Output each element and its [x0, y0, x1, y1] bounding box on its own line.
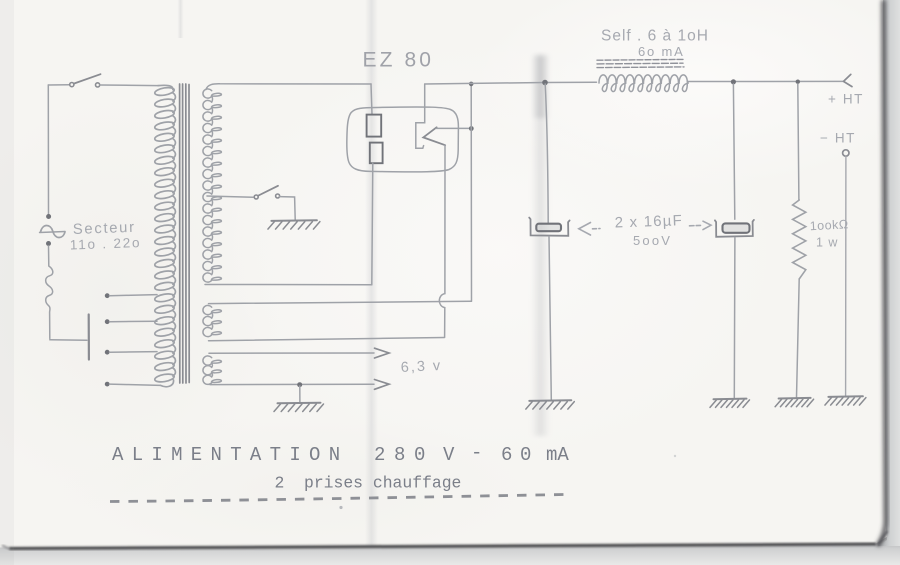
- wire: R1 to ground: [797, 279, 800, 397]
- plate 2 (anode): [370, 143, 383, 164]
- primary tap node 3: [105, 350, 110, 355]
- svg-text:60: 60: [501, 444, 539, 466]
- transformer T1 heater winding 2: [203, 356, 221, 385]
- voltage selector bar: [88, 315, 90, 360]
- cathode arrow: [423, 127, 445, 145]
- node: heater 2 ground junction: [297, 382, 302, 387]
- svg-text:Self . 6 à 1oH: Self . 6 à 1oH: [601, 28, 709, 45]
- wire: tap 3: [110, 351, 158, 354]
- wire: C1 to ground: [549, 237, 551, 400]
- scan edge: bottom: [0, 535, 900, 565]
- svg-text:mA: mA: [546, 444, 569, 466]
- node: cathode junction: [469, 126, 474, 131]
- wire: HV secondary top to plate: [206, 84, 371, 90]
- svg-text:5ooV: 5ooV: [633, 233, 672, 248]
- transformer T1 heater winding 1: [203, 305, 221, 336]
- wire: heater 1 bottom: [209, 338, 445, 341]
- wire: +HT rail from cathode: [425, 82, 597, 84]
- wire: R1 branch down: [798, 84, 799, 200]
- wire: -HT to ground: [845, 157, 847, 396]
- wire: C2 branch down: [733, 84, 734, 219]
- wire: rail choke to +HT fork: [688, 80, 844, 82]
- wire: HV secondary bottom to plate 2 lead: [205, 284, 372, 286]
- svg-text:ALIMENTATION: ALIMENTATION: [112, 444, 348, 466]
- svg-text:6o mA: 6o mA: [638, 44, 685, 59]
- svg-text:+ HT: + HT: [828, 92, 864, 107]
- switch S1 (mains switch): [48, 84, 69, 86]
- wire: mains left vertical: [47, 85, 49, 214]
- wire: below AC source with squiggle: [46, 246, 53, 339]
- ground (C2): [714, 398, 747, 401]
- choke L1 core lines: [597, 59, 684, 67]
- ground (R1): [779, 397, 811, 400]
- switch S2 (HT center-tap to ground): [254, 195, 258, 199]
- wire: heater 2 bottom (6,3V output): [210, 383, 374, 385]
- scan edge: right: [878, 0, 900, 546]
- node: C2 junction: [731, 79, 736, 84]
- wire: tap 4: [110, 384, 161, 385]
- dashed separator line: [110, 495, 565, 502]
- wire: cathode output: [436, 127, 471, 129]
- primary tap node 2: [105, 319, 110, 324]
- arrow annotation right (to C2): [690, 224, 701, 226]
- wire: junction to ground: [299, 386, 301, 402]
- wire: heater 1 top to cathode rail: [209, 301, 472, 303]
- tube EZ80 envelope: [347, 107, 459, 172]
- primary tap node 4: [105, 382, 110, 387]
- +HT output fork: [844, 74, 853, 86]
- svg-text:1 w: 1 w: [816, 236, 838, 250]
- svg-text:− HT: − HT: [820, 131, 856, 146]
- wire: cathode rail vertical: [470, 84, 472, 301]
- AC source (Secteur sine symbol): [40, 232, 66, 233]
- ground (heater winding): [278, 402, 321, 405]
- wire: HV center tap: [207, 196, 253, 197]
- node: R1 junction: [796, 80, 800, 84]
- wire: tap 2: [110, 320, 158, 323]
- arrowhead 6,3V bottom: [375, 380, 390, 390]
- wire: C2 to ground: [733, 238, 736, 398]
- transformer T1 primary winding: [155, 85, 176, 386]
- svg-text:6,3 v: 6,3 v: [400, 358, 442, 376]
- svg-text:prises chauffage: prises chauffage: [304, 474, 461, 493]
- svg-text:11o . 22o: 11o . 22o: [70, 235, 142, 252]
- wire: to voltage selector bar: [50, 339, 87, 341]
- ground (center tap): [271, 219, 317, 222]
- svg-text:1ookΩ: 1ookΩ: [809, 217, 849, 233]
- transformer T1 core: [180, 84, 190, 383]
- wire: heater 2 top (6,3V output): [209, 352, 374, 354]
- node: AC source bottom terminal: [46, 241, 51, 246]
- wire: plate 1 lead from top rail: [371, 84, 372, 114]
- paper blemish: [339, 506, 342, 509]
- node: AC source top terminal: [46, 214, 51, 219]
- svg-text:280: 280: [374, 444, 434, 466]
- arrowhead 6,3V top: [375, 348, 390, 358]
- resistor R1 (100k 1W): [793, 200, 806, 279]
- wire: heater pin down with crossover hop: [439, 145, 445, 337]
- svg-text:2 x 16µF: 2 x 16µF: [614, 212, 683, 231]
- svg-text:V: V: [443, 444, 455, 466]
- svg-text:-: -: [471, 442, 482, 464]
- -HT terminal circle: [843, 150, 849, 156]
- wire: switch S2 to ground: [280, 197, 296, 220]
- svg-text:EZ 80: EZ 80: [363, 49, 435, 72]
- transformer T1 HV secondary winding: [203, 89, 221, 282]
- capacitor C1 (16uF): [529, 218, 569, 236]
- capacitor C2 (16uF): [715, 220, 754, 237]
- primary tap node 1: [105, 293, 110, 298]
- ground (C1): [529, 399, 571, 402]
- wire: switch to transformer primary top: [100, 84, 158, 87]
- plate 1 (anode): [367, 115, 382, 137]
- cathode top lead: [416, 84, 425, 148]
- wire: C1 branch down: [545, 84, 548, 224]
- node: rail top junction: [469, 82, 474, 87]
- ground (-HT): [828, 395, 863, 398]
- wire: tap 1: [110, 295, 158, 296]
- arrow annotation left (to C1): [579, 223, 591, 236]
- node: C1 junction: [542, 80, 548, 86]
- choke L1 winding: [599, 75, 688, 92]
- wire: plate 2 lead down: [372, 163, 373, 284]
- svg-text:2: 2: [275, 474, 285, 493]
